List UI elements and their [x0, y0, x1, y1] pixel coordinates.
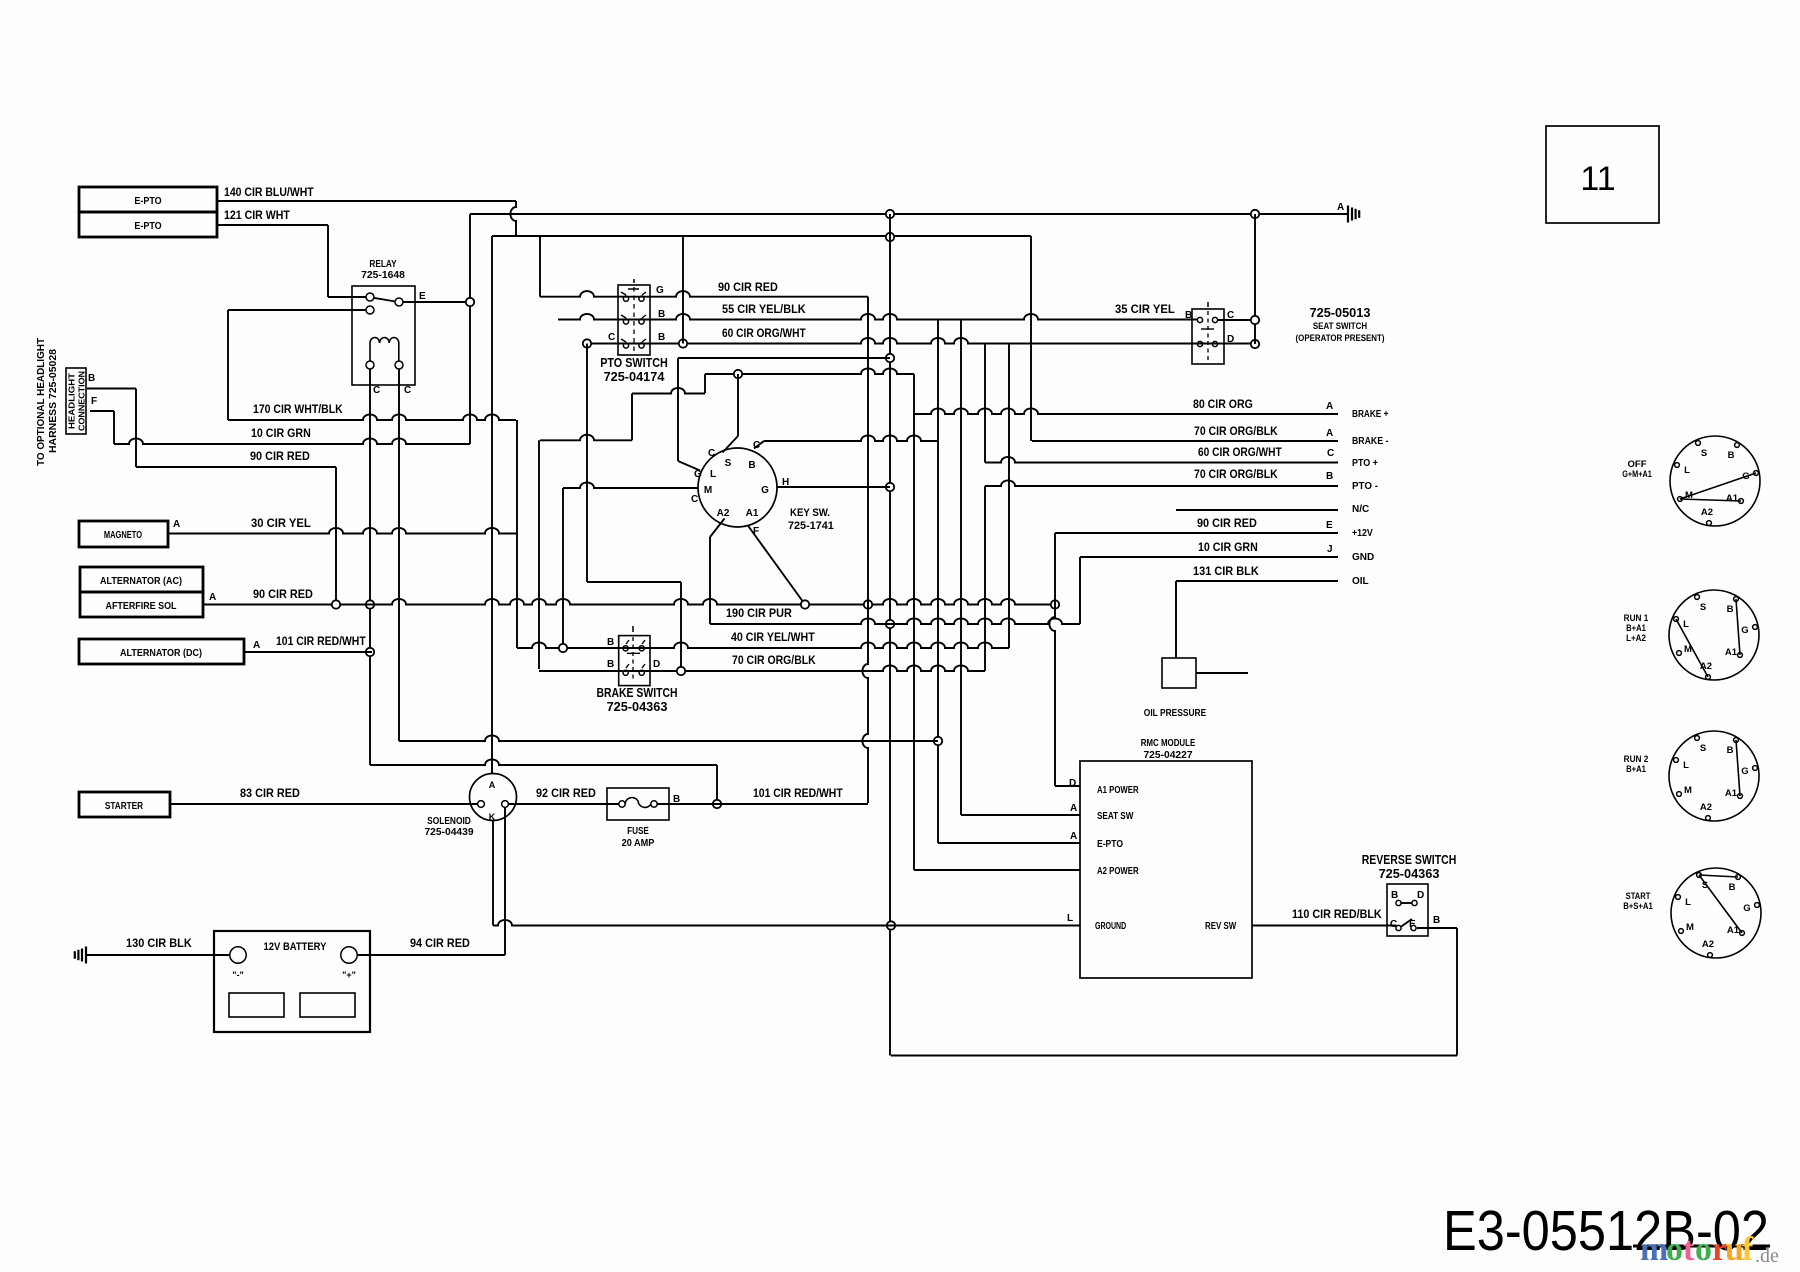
svg-text:E-PTO: E-PTO: [134, 195, 161, 207]
alternator dc: [79, 639, 244, 664]
svg-text:E: E: [1326, 520, 1333, 531]
wire 131 CIR BLK (OIL): [1176, 580, 1338, 582]
wire 60 CIR ORG/WHT (pto+): [985, 457, 1338, 463]
key switch 725-1741: [698, 448, 777, 527]
svg-text:140 CIR BLU/WHT: 140 CIR BLU/WHT: [224, 187, 314, 199]
svg-text:HARNESS 725-05028: HARNESS 725-05028: [48, 349, 59, 453]
wire headlight to afterfire drop: [335, 467, 337, 605]
alternator ac: [80, 567, 203, 592]
relay: [352, 286, 415, 385]
node junction ground rail / seat: [1251, 210, 1259, 218]
wire N/C stub: [1176, 509, 1338, 511]
wire bus 868 spine: [862, 297, 868, 803]
wire key F lead: [748, 525, 806, 605]
wire 10 CIR GRN: [114, 438, 470, 444]
svg-text:C: C: [691, 494, 698, 505]
svg-text:m: m: [1640, 1231, 1668, 1268]
svg-text:94 CIR RED: 94 CIR RED: [410, 938, 470, 950]
svg-text:G+M+A1: G+M+A1: [1622, 469, 1652, 480]
svg-text:131 CIR BLK: 131 CIR BLK: [1193, 566, 1259, 578]
svg-text:D: D: [1069, 778, 1076, 789]
svg-text:12V BATTERY: 12V BATTERY: [264, 941, 327, 953]
svg-text:RMC MODULE: RMC MODULE: [1141, 737, 1196, 749]
svg-text:90 CIR RED: 90 CIR RED: [1197, 518, 1257, 530]
wire 80 CIR ORG (brake+): [914, 408, 1338, 414]
wire solenoid feed 765: [370, 759, 717, 765]
svg-text:10 CIR GRN: 10 CIR GRN: [251, 428, 311, 440]
wire ignition RUN 1 link B-A1: [1736, 599, 1740, 655]
node junction 370/605: [366, 600, 374, 608]
svg-text:L: L: [1684, 465, 1690, 476]
svg-text:725-1648: 725-1648: [361, 269, 405, 281]
ground (top right): [1347, 206, 1349, 223]
svg-text:ALTERNATOR (DC): ALTERNATOR (DC): [120, 647, 202, 659]
svg-text:FUSE: FUSE: [627, 825, 649, 837]
svg-text:A: A: [1070, 803, 1077, 814]
solenoid 725-04439: [470, 774, 517, 821]
svg-text:B: B: [1727, 604, 1734, 615]
wire relay NC drop: [227, 310, 229, 420]
svg-text:f: f: [1742, 1231, 1754, 1268]
svg-text:S: S: [1700, 602, 1706, 613]
svg-text:A: A: [173, 519, 180, 530]
svg-text:o: o: [1666, 1231, 1683, 1268]
wire pto B riser: [682, 236, 684, 344]
svg-text:A1: A1: [1725, 647, 1738, 658]
wire 55 CIR YEL/BLK / 35 CIR YEL: [558, 314, 1197, 320]
ignition OFF: [1670, 436, 1760, 526]
ignition RUN 1: [1669, 590, 1759, 680]
svg-text:170 CIR WHT/BLK: 170 CIR WHT/BLK: [253, 404, 343, 416]
wire pto C drop: [586, 344, 588, 583]
svg-text:GROUND: GROUND: [1095, 921, 1126, 932]
svg-text:BRAKE -: BRAKE -: [1352, 436, 1388, 447]
svg-text:G: G: [1741, 625, 1748, 636]
svg-text:A: A: [253, 640, 260, 651]
svg-text:C: C: [708, 448, 715, 459]
wire kill link riser: [516, 420, 518, 648]
node junction M/brake: [559, 644, 567, 652]
svg-text:BRAKE SWITCH: BRAKE SWITCH: [596, 685, 677, 700]
wire seat sw wire: [961, 814, 1080, 816]
svg-text:TO OPTIONAL HEADLIGHT: TO OPTIONAL HEADLIGHT: [36, 338, 47, 466]
svg-text:SEAT SWITCH: SEAT SWITCH: [1313, 321, 1367, 332]
svg-text:725-04439: 725-04439: [424, 826, 473, 838]
relay coil: [370, 338, 399, 362]
wire key C top-left lead: [723, 436, 739, 453]
svg-text:725-04363: 725-04363: [1379, 866, 1440, 881]
svg-text:M: M: [1684, 785, 1692, 796]
svg-text:L: L: [1067, 913, 1073, 924]
svg-text:HEADLIGHT: HEADLIGHT: [67, 372, 77, 429]
wire H wire: [777, 486, 890, 488]
reverse switch: [1387, 884, 1428, 936]
wire ignition RUN 1 link L-A2: [1676, 619, 1708, 677]
svg-text:D: D: [653, 659, 660, 670]
wire M drop: [562, 488, 564, 648]
svg-text:B: B: [88, 373, 95, 384]
wire relay E riser: [469, 214, 471, 444]
svg-text:A2: A2: [1700, 802, 1712, 813]
svg-text:70 CIR ORG/BLK: 70 CIR ORG/BLK: [1194, 469, 1278, 481]
node junction 890/358: [886, 354, 894, 362]
wire oil pressure stub: [1196, 672, 1248, 674]
wire relay coil right drop: [398, 369, 400, 741]
svg-text:101 CIR RED/WHT: 101 CIR RED/WHT: [753, 788, 843, 800]
wire 101 CIR RED/WHT (alternator): [244, 651, 372, 653]
wire fuse out wire: [658, 803, 869, 805]
sheet 11 box: [1546, 126, 1659, 223]
node junction e-pto/741: [934, 737, 942, 745]
headlight connection: [66, 368, 86, 434]
svg-text:30 CIR YEL: 30 CIR YEL: [251, 518, 311, 530]
node junction key F: [801, 600, 809, 608]
wire starter wire 83: [170, 803, 478, 805]
svg-text:40 CIR YEL/WHT: 40 CIR YEL/WHT: [731, 632, 815, 644]
svg-text:MAGNETO: MAGNETO: [104, 529, 142, 541]
wire +12V drop: [1049, 533, 1055, 786]
wire headlight F wire: [90, 410, 114, 412]
svg-text:OIL: OIL: [1352, 576, 1369, 587]
svg-text:B: B: [1728, 450, 1735, 461]
svg-text:80 CIR ORG: 80 CIR ORG: [1193, 399, 1253, 411]
svg-text:90 CIR RED: 90 CIR RED: [253, 589, 313, 601]
seat switch: [1192, 309, 1224, 364]
node junction 868/605: [864, 600, 872, 608]
svg-text:ALTERNATOR (AC): ALTERNATOR (AC): [100, 575, 182, 587]
svg-text:B: B: [1727, 745, 1734, 756]
wire brake+ rail 374: [705, 368, 914, 374]
svg-text:o: o: [1695, 1231, 1712, 1268]
svg-text:725-04363: 725-04363: [607, 699, 668, 714]
node junction seat D rail: [1251, 340, 1259, 348]
wire ignition START link S-A1: [1699, 875, 1742, 933]
wire 121 CIR WHT: [217, 224, 328, 226]
wire solenoid gnd drop: [492, 821, 494, 926]
svg-text:E-PTO: E-PTO: [134, 220, 161, 232]
svg-text:190 CIR PUR: 190 CIR PUR: [726, 608, 792, 620]
wire pto-C to brake link: [587, 581, 681, 583]
wire relay coil link 741: [399, 735, 938, 741]
svg-text:C: C: [404, 385, 411, 396]
wire headlight F drop: [113, 411, 115, 444]
wire reverse top link: [1401, 902, 1412, 904]
wire brake+ drop: [913, 374, 915, 870]
node junction 890/925: [887, 921, 895, 929]
node junction 890/624: [886, 620, 894, 628]
svg-text:70 CIR ORG/BLK: 70 CIR ORG/BLK: [732, 655, 816, 667]
svg-text:A1: A1: [746, 508, 759, 519]
node junction pto B out: [679, 339, 687, 347]
svg-text:725-1741: 725-1741: [788, 520, 834, 532]
wire E-PTO drop to brake- rail: [1030, 236, 1032, 441]
wire 92 CIR RED: [509, 803, 619, 805]
battery cell 2: [300, 993, 355, 1017]
svg-text:10 CIR GRN: 10 CIR GRN: [1198, 542, 1258, 554]
wire solenoid K drop: [504, 808, 506, 956]
wire e-pto wire: [938, 842, 1080, 844]
wire key C top-right lead: [754, 441, 764, 449]
svg-text:B+S+A1: B+S+A1: [1623, 901, 1653, 912]
wire e-pto drop: [937, 320, 939, 844]
svg-text:F: F: [91, 396, 97, 407]
svg-text:B: B: [1326, 471, 1333, 482]
wire 70 CIR ORG/BLK (brake-): [1032, 440, 1338, 442]
wire ignition OFF link M-A1: [1680, 499, 1741, 501]
svg-text:83 CIR RED: 83 CIR RED: [240, 788, 300, 800]
svg-text:L: L: [1685, 897, 1691, 908]
svg-text:A1: A1: [1725, 788, 1738, 799]
svg-text:90 CIR RED: 90 CIR RED: [250, 451, 310, 463]
svg-text:B: B: [658, 309, 665, 320]
wire relay blade: [374, 298, 396, 302]
wire 90 CIR RED rail: [203, 599, 1055, 605]
svg-text:B: B: [607, 659, 614, 670]
node junction relay E: [466, 298, 474, 306]
ignition START: [1671, 868, 1761, 958]
wire 40 CIR YEL/WHT: [517, 642, 1009, 648]
svg-text:A2 POWER: A2 POWER: [1097, 866, 1139, 877]
wire pto actuator drop: [631, 394, 633, 441]
svg-text:130 CIR BLK: 130 CIR BLK: [126, 938, 192, 950]
svg-text:A1 POWER: A1 POWER: [1097, 785, 1139, 796]
svg-text:20 AMP: 20 AMP: [622, 837, 655, 849]
wire key G lead: [678, 461, 700, 471]
svg-text:725-04174: 725-04174: [604, 369, 666, 384]
wire a2 power wire: [914, 869, 1080, 871]
svg-text:60 CIR ORG/WHT: 60 CIR ORG/WHT: [1198, 447, 1282, 459]
E-PTO box 1: [79, 187, 217, 212]
svg-text:A: A: [1326, 428, 1333, 439]
svg-text:121 CIR WHT: 121 CIR WHT: [224, 210, 290, 222]
svg-text:A: A: [1337, 202, 1344, 213]
svg-text:110 CIR RED/BLK: 110 CIR RED/BLK: [1292, 909, 1382, 921]
afterfire sol: [80, 592, 203, 617]
wire M wire: [563, 482, 698, 488]
svg-text:E: E: [419, 291, 426, 302]
node junction 890/487: [886, 483, 894, 491]
wire 90 CIR RED (+12V): [1055, 532, 1338, 534]
svg-text:A: A: [1070, 831, 1077, 842]
node junction seat C: [1251, 316, 1259, 324]
svg-text:KEY SW.: KEY SW.: [790, 507, 830, 519]
wire pto+ drop: [984, 344, 986, 463]
svg-text:B: B: [607, 637, 614, 648]
svg-text:A2: A2: [1701, 507, 1713, 518]
fuse: [607, 788, 669, 820]
ground left: [85, 947, 87, 964]
wire 10 CIR GRN (GND): [1080, 556, 1338, 558]
svg-text:G: G: [1743, 903, 1750, 914]
wire row1 left drop: [539, 236, 541, 297]
wire key A2 lead: [710, 519, 725, 538]
svg-text:PTO -: PTO -: [1352, 481, 1378, 492]
wire 121 drop: [327, 225, 329, 297]
wire bottom loop: [891, 1055, 1457, 1057]
wire 70 CIR ORG/BLK (brake-) key side: [764, 435, 938, 441]
svg-text:AFTERFIRE SOL: AFTERFIRE SOL: [106, 600, 177, 612]
svg-text:G: G: [1741, 766, 1748, 777]
wire 130 CIR BLK: [87, 954, 230, 956]
wire 70 CIR ORG/BLK (pto-): [985, 480, 1338, 486]
battery: [214, 931, 370, 1032]
svg-text:"-": "-": [232, 970, 244, 980]
svg-text:725-04227: 725-04227: [1143, 749, 1192, 761]
svg-text:M: M: [704, 485, 712, 496]
starter: [79, 792, 170, 817]
svg-text:A1: A1: [1726, 493, 1739, 504]
wire headlight B wire: [87, 388, 136, 390]
svg-text:D: D: [1417, 890, 1424, 901]
wire key B link 358: [678, 357, 890, 359]
svg-text:BRAKE +: BRAKE +: [1352, 409, 1389, 420]
brake switch: [619, 636, 650, 686]
magneto: [79, 521, 168, 547]
svg-text:60 CIR ORG/WHT: 60 CIR ORG/WHT: [722, 328, 806, 340]
svg-text:S: S: [1700, 743, 1706, 754]
svg-text:B: B: [1729, 882, 1736, 893]
wire key G jog: [632, 388, 705, 394]
wire fuse out drop: [716, 765, 718, 804]
svg-text:L+A2: L+A2: [1626, 633, 1646, 644]
wire pto- riser: [984, 486, 986, 671]
wire ground rail: [470, 213, 1348, 215]
wire solenoid A drop: [491, 236, 493, 774]
svg-text:A: A: [489, 780, 496, 790]
wire bus 890 spine: [889, 214, 891, 1056]
svg-text:L: L: [1683, 619, 1689, 630]
wire A1 power wire: [1055, 785, 1080, 787]
svg-text:G: G: [656, 285, 664, 296]
wire D rail drop: [1008, 344, 1010, 649]
wire 94 CIR RED: [358, 954, 506, 956]
svg-text:92 CIR RED: 92 CIR RED: [536, 788, 596, 800]
node junction pto C: [583, 339, 591, 347]
svg-text:OIL PRESSURE: OIL PRESSURE: [1144, 708, 1207, 719]
svg-text:C: C: [1327, 448, 1334, 459]
wire seat sw drop: [960, 320, 962, 816]
wire headlight B drop: [135, 389, 137, 468]
svg-text:CONNECTION: CONNECTION: [77, 371, 87, 431]
node junction key C feed: [734, 370, 742, 378]
wire reverse blade: [1401, 919, 1413, 927]
wire 70 CIR ORG/BLK (brake): [539, 665, 985, 671]
rmc module: [1080, 761, 1252, 978]
svg-text:L: L: [1683, 760, 1689, 771]
svg-text:.de: .de: [1755, 1245, 1779, 1267]
pto switch: [618, 285, 650, 355]
svg-text:A2: A2: [1702, 939, 1714, 950]
svg-text:B+A1: B+A1: [1626, 764, 1646, 775]
svg-text:101 CIR RED/WHT: 101 CIR RED/WHT: [276, 636, 366, 648]
svg-text:B: B: [1433, 915, 1440, 926]
battery cell 1: [229, 993, 284, 1017]
svg-text:55 CIR YEL/BLK: 55 CIR YEL/BLK: [722, 304, 806, 316]
svg-text:11: 11: [1580, 160, 1615, 198]
wire 30 CIR YEL: [168, 528, 517, 534]
svg-text:PTO +: PTO +: [1352, 458, 1378, 469]
node junction brake D: [677, 667, 685, 675]
svg-text:+12V: +12V: [1352, 528, 1373, 539]
svg-text:PTO SWITCH: PTO SWITCH: [600, 355, 668, 370]
node junction fuse out: [713, 800, 721, 808]
svg-text:STARTER: STARTER: [105, 800, 144, 812]
ignition RUN 2: [1669, 731, 1759, 821]
svg-text:90 CIR RED: 90 CIR RED: [718, 282, 778, 294]
wire ignition START link S-B: [1699, 875, 1738, 877]
wire 90 CIR RED (pto G): [540, 291, 868, 297]
node junction 1055/605: [1051, 600, 1059, 608]
svg-text:C: C: [608, 332, 615, 343]
svg-text:S: S: [1701, 448, 1707, 459]
wire reverse out link: [1417, 927, 1457, 929]
node junction 370/652: [366, 648, 374, 656]
wire reverse drop: [1456, 928, 1458, 1056]
wire 90 CIR RED (headlight): [136, 466, 336, 468]
svg-text:J: J: [1327, 544, 1333, 555]
svg-text:t: t: [1683, 1231, 1695, 1268]
wire ignition OFF link M-G: [1680, 473, 1756, 499]
wire 170 CIR WHT/BLK: [228, 414, 516, 420]
node junction 336/605: [332, 600, 340, 608]
wire 140 drop: [510, 201, 516, 236]
svg-text:G: G: [761, 485, 769, 496]
wire key C drop: [737, 374, 739, 436]
svg-text:REV SW: REV SW: [1205, 921, 1237, 932]
svg-text:S: S: [725, 458, 732, 469]
svg-text:SEAT SW: SEAT SW: [1097, 811, 1134, 822]
wire relay NC wire: [228, 309, 366, 311]
wire relay coil left drop: [369, 369, 371, 765]
svg-text:N/C: N/C: [1352, 504, 1369, 515]
wire 60 CIR ORG/WHT rail: [587, 338, 1255, 344]
svg-text:A: A: [1326, 401, 1333, 412]
svg-text:(OPERATOR PRESENT): (OPERATOR PRESENT): [1296, 333, 1385, 344]
wire pto-C to brake link drop: [680, 582, 682, 671]
svg-text:M: M: [1686, 922, 1694, 933]
wire 140 CIR BLU/WHT: [217, 200, 516, 202]
wire GND stub drop: [1079, 557, 1081, 624]
wire brake- link 440: [540, 435, 632, 441]
wire brake- feed drop: [538, 440, 540, 669]
wire rev sw wire: [1252, 925, 1396, 927]
wire ignition RUN 2 link B-A1: [1736, 740, 1740, 796]
node junction 890/236: [886, 233, 894, 241]
E-PTO box 2: [79, 212, 217, 237]
wire fuse inner left: [608, 803, 618, 805]
wire A2 drop: [709, 537, 711, 624]
wire 121 to relay: [328, 296, 366, 298]
svg-text:B: B: [658, 332, 665, 343]
wire seat switch riser: [1254, 214, 1256, 344]
svg-text:A2: A2: [717, 508, 730, 519]
wire bus link 236: [492, 235, 1031, 237]
svg-text:REVERSE SWITCH: REVERSE SWITCH: [1362, 852, 1457, 867]
wire relay E wire: [403, 301, 466, 303]
wire key G jog riser: [704, 374, 706, 393]
svg-text:B: B: [748, 460, 755, 471]
svg-text:B: B: [1391, 890, 1398, 901]
svg-text:GND: GND: [1352, 552, 1374, 563]
oil pressure: [1162, 658, 1196, 688]
svg-text:70 CIR ORG/BLK: 70 CIR ORG/BLK: [1194, 426, 1278, 438]
svg-text:C: C: [373, 385, 380, 396]
wire 190 CIR PUR: [710, 618, 1080, 624]
svg-text:725-05013: 725-05013: [1310, 305, 1371, 320]
svg-text:E-PTO: E-PTO: [1097, 839, 1123, 850]
wire oil drop: [1175, 581, 1177, 658]
wire key G drop: [677, 358, 679, 461]
